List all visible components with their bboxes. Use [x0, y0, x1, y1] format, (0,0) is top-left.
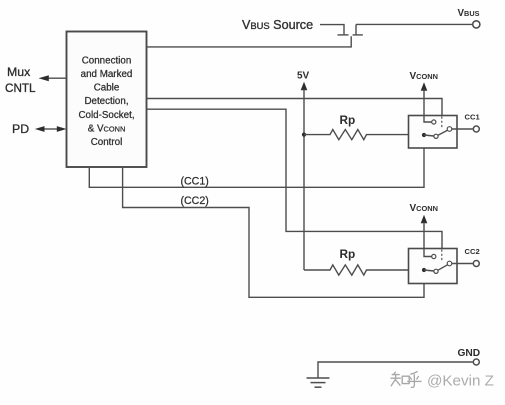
label VBUS — [458, 8, 480, 19]
svg-text:CNTL: CNTL — [5, 82, 36, 95]
terminal VBUS (circle) — [473, 21, 480, 28]
svg-text:5V: 5V — [297, 70, 310, 81]
terminal GND (circle) — [473, 359, 479, 365]
svg-text:Connection: Connection — [82, 56, 132, 67]
svg-text:GND: GND — [458, 348, 481, 359]
svg-text:(CC1): (CC1) — [181, 175, 209, 187]
svg-text:and Marked: and Marked — [81, 69, 133, 80]
svg-text:Control: Control — [91, 137, 123, 148]
wire VBUS Source to FET — [320, 25, 344, 35]
terminal CC2 (circle) — [473, 261, 479, 267]
node junction on 5V rail at CC1 Rp — [302, 133, 306, 137]
SW2 dashed control link — [441, 250, 443, 262]
SW1 VCONN throw contact — [424, 116, 436, 125]
wire VCONN (CC2) with up arrow — [421, 215, 428, 257]
svg-text:(CC2): (CC2) — [181, 195, 209, 207]
wire FET drain to VBUS terminal — [356, 23, 473, 25]
SW1 common node dot — [422, 133, 426, 137]
switch box SW2 (CC2) — [409, 249, 458, 284]
svg-text:VCONN: VCONN — [410, 71, 438, 82]
resistor Rp (CC1) — [304, 130, 424, 140]
label CC2 — [465, 247, 480, 256]
svg-text:Cable: Cable — [94, 83, 120, 94]
wire Mux CNTL arrow (out of block, points left) — [39, 75, 67, 81]
svg-text:VCONN: VCONN — [410, 203, 438, 214]
SW1 lower throw contact — [424, 134, 438, 138]
label PD — [12, 122, 29, 136]
SW2 common node dot — [422, 268, 426, 272]
svg-text:& VCONN: & VCONN — [88, 123, 126, 134]
SW2 lower throw contact — [424, 269, 438, 273]
svg-text:CC1: CC1 — [465, 113, 481, 122]
transistor Q1 VBUS FET (right drain leg and bar) — [353, 24, 363, 35]
svg-text:Mux: Mux — [7, 65, 31, 79]
svg-text:Rp: Rp — [340, 113, 356, 127]
svg-text:VBUS: VBUS — [458, 8, 480, 19]
SW1 pivot and blade — [438, 127, 452, 136]
SW2 pivot and blade — [438, 261, 452, 270]
svg-text:@Kevin Z: @Kevin Z — [427, 373, 494, 390]
label GND — [458, 348, 481, 359]
svg-text:PD: PD — [12, 122, 29, 136]
wire GND rail — [318, 362, 473, 378]
wire control B: block to CC2 switch (gate drive) — [147, 109, 443, 248]
label (CC1) — [181, 175, 209, 187]
label Rp (CC1) — [340, 113, 356, 127]
ground symbol — [307, 378, 330, 387]
svg-text:Rp: Rp — [340, 247, 356, 261]
label VBUS Source — [242, 18, 313, 32]
label Rp (CC2) — [340, 247, 356, 261]
SW1 dashed control link — [441, 117, 443, 128]
SW2 VCONN throw contact — [424, 249, 436, 259]
label VCONN (CC2) — [410, 203, 438, 214]
label (CC2) — [181, 195, 209, 207]
control block U1: Connection and Marked Cable Detection — [67, 32, 147, 168]
wire 5V rail with up arrow — [301, 82, 308, 270]
wire (CC2) net: SW2 common to control block — [123, 167, 424, 297]
wire SW2 pivot to CC2 terminal — [452, 263, 473, 265]
svg-text:CC2: CC2 — [465, 247, 480, 256]
switch box SW1 (CC1) — [409, 116, 458, 149]
label CC1 — [465, 113, 481, 122]
svg-text:Detection,: Detection, — [84, 96, 128, 107]
wire SW1 pivot to CC1 terminal — [452, 128, 473, 130]
svg-text:VBUS Source: VBUS Source — [242, 18, 313, 32]
wire VCONN (CC1) with up arrow — [421, 82, 428, 122]
wire Q1 gate to control block — [147, 36, 352, 47]
resistor Rp (CC2) — [304, 265, 424, 275]
svg-text:Cold-Socket,: Cold-Socket, — [78, 110, 134, 121]
watermark 知乎 @Kevin Z — [391, 372, 494, 390]
wire PD bidirectional arrow — [35, 126, 67, 132]
wire control A: block to CC1 switch (gate drive) — [147, 99, 443, 116]
transistor Q1 VBUS FET (left source bar) — [338, 34, 349, 36]
terminal CC1 (circle) — [473, 126, 479, 132]
label VCONN (CC1) — [410, 71, 438, 82]
wire (CC1) net: SW1 common to control block — [89, 148, 424, 187]
label Mux CNTL — [5, 65, 36, 95]
label 5V — [297, 70, 310, 81]
